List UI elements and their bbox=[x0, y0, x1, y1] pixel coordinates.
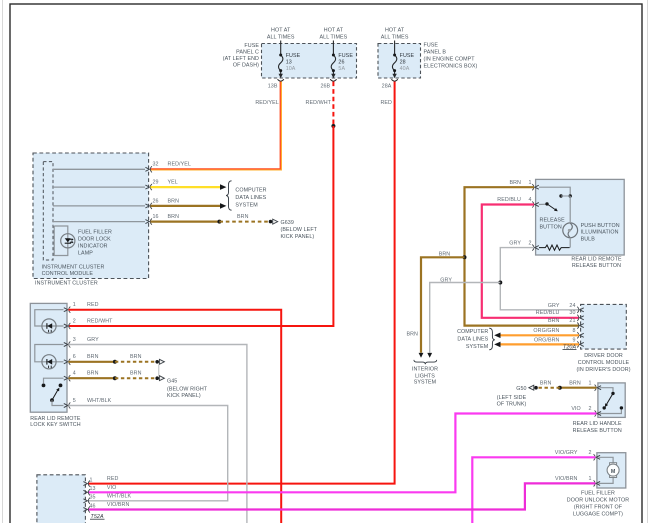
cluster internal wire pin 26 bbox=[53, 205, 145, 207]
svg-text:26: 26 bbox=[338, 60, 344, 66]
svg-text:GRY: GRY bbox=[440, 277, 452, 283]
pin 29 bbox=[145, 184, 152, 190]
svg-text:WHT/BLK: WHT/BLK bbox=[107, 494, 132, 500]
svg-text:(IN ENGINE COMPT: (IN ENGINE COMPT bbox=[424, 57, 476, 63]
svg-text:GRY: GRY bbox=[548, 303, 560, 309]
svg-text:HOT AT: HOT AT bbox=[324, 28, 344, 34]
svg-text:13: 13 bbox=[90, 486, 96, 492]
ground G639 bbox=[269, 219, 278, 224]
svg-text:DOOR UNLOCK MOTOR: DOOR UNLOCK MOTOR bbox=[567, 498, 629, 504]
svg-text:BRN: BRN bbox=[540, 380, 552, 386]
svg-text:FUSE: FUSE bbox=[338, 53, 353, 59]
wire VIO/BRN motor pin 1 to T52A pin 46 bbox=[88, 483, 595, 509]
svg-text:BRN: BRN bbox=[87, 354, 99, 360]
resistor bbox=[539, 245, 570, 250]
svg-text:BRN: BRN bbox=[548, 318, 560, 324]
svg-text:BRN: BRN bbox=[406, 331, 418, 337]
connector 28A bbox=[391, 79, 397, 81]
svg-text:COMPUTER: COMPUTER bbox=[457, 329, 488, 335]
svg-text:HOT AT: HOT AT bbox=[385, 28, 405, 34]
svg-text:VIO/BRN: VIO/BRN bbox=[555, 476, 578, 482]
svg-text:YEL: YEL bbox=[168, 180, 178, 186]
svg-text:RED: RED bbox=[380, 100, 392, 106]
svg-text:16: 16 bbox=[153, 214, 159, 220]
svg-text:28A: 28A bbox=[382, 84, 392, 90]
release button pin 1 bbox=[532, 184, 539, 190]
module pin 9 / wire ORG/BRN bbox=[577, 341, 584, 347]
instrument cluster outer box bbox=[33, 153, 149, 279]
fuse 26 value label bbox=[338, 53, 353, 72]
svg-text:CONTROL MODULE: CONTROL MODULE bbox=[42, 271, 94, 277]
T52A module box bbox=[37, 475, 86, 523]
svg-text:G50: G50 bbox=[516, 386, 526, 392]
svg-text:1: 1 bbox=[528, 180, 531, 186]
rear lid handle release button box bbox=[598, 383, 625, 418]
svg-text:VIO: VIO bbox=[571, 406, 580, 412]
rear lid remote lock key switch box bbox=[30, 303, 67, 412]
fuse 26 bbox=[331, 41, 335, 75]
svg-text:DATA LINES: DATA LINES bbox=[457, 336, 488, 342]
handle button switch bbox=[600, 388, 614, 392]
svg-text:ELECTRONICS BOX): ELECTRONICS BOX) bbox=[424, 64, 478, 70]
svg-text:VIO/BRN: VIO/BRN bbox=[107, 502, 130, 508]
svg-text:4: 4 bbox=[528, 197, 531, 203]
wire RED/WHT to key switch pin 2 bbox=[69, 126, 334, 326]
junction BRN bbox=[463, 255, 467, 259]
svg-text:BUTTON: BUTTON bbox=[540, 224, 562, 230]
svg-text:1: 1 bbox=[73, 302, 76, 308]
svg-text:BRN: BRN bbox=[439, 252, 451, 258]
svg-text:GRY: GRY bbox=[87, 337, 99, 343]
wire VIO/GRY motor pin 2 bbox=[472, 457, 595, 523]
svg-text:FUEL FILLER: FUEL FILLER bbox=[581, 491, 615, 497]
svg-text:26B: 26B bbox=[320, 84, 330, 90]
svg-text:10A: 10A bbox=[286, 66, 296, 72]
svg-text:RED: RED bbox=[87, 302, 99, 308]
key switch pin 1 bbox=[64, 307, 71, 313]
HOT AT ALL TIMES label (fuse 28) bbox=[381, 28, 409, 41]
svg-text:13: 13 bbox=[286, 60, 292, 66]
cluster internal wire pin 16 bbox=[53, 221, 145, 223]
svg-text:BRN: BRN bbox=[509, 180, 521, 186]
svg-text:40A: 40A bbox=[400, 66, 410, 72]
wire GRY branch to interior lights bbox=[430, 283, 501, 353]
svg-text:VIO/GRY: VIO/GRY bbox=[555, 450, 578, 456]
instrument cluster control module box bbox=[43, 162, 53, 260]
cluster internal wire pin 29 bbox=[53, 186, 145, 188]
svg-text:1: 1 bbox=[588, 380, 591, 386]
cluster internal wire pin 32 bbox=[53, 168, 145, 170]
T52A pin 46 bbox=[83, 506, 90, 512]
fuse 13 value label bbox=[286, 53, 301, 72]
svg-text:VIO: VIO bbox=[107, 485, 116, 491]
svg-text:FUSE: FUSE bbox=[400, 53, 415, 59]
svg-text:FUSE: FUSE bbox=[424, 43, 439, 49]
key switch contacts bbox=[44, 378, 64, 383]
svg-text:5A: 5A bbox=[338, 66, 345, 72]
svg-text:OF TRUNK): OF TRUNK) bbox=[497, 402, 527, 408]
svg-text:(BELOW LEFT: (BELOW LEFT bbox=[281, 227, 318, 233]
fuse panel B label bbox=[424, 43, 478, 70]
svg-text:DRIVER DOOR: DRIVER DOOR bbox=[584, 353, 623, 359]
svg-text:LUGGAGE COMPT): LUGGAGE COMPT) bbox=[573, 511, 623, 517]
splice on BRN pin 16 wire bbox=[217, 220, 221, 224]
svg-text:1: 1 bbox=[90, 477, 93, 483]
wire BRN pin 26 to computer data lines bbox=[151, 205, 221, 207]
splice on BRN pin 6 wire bbox=[113, 360, 117, 364]
svg-text:RED/BLU: RED/BLU bbox=[536, 310, 560, 316]
svg-text:RED: RED bbox=[107, 476, 119, 482]
module pin 8 / wire ORG/GRN bbox=[577, 332, 584, 338]
svg-text:(LEFT SIDE: (LEFT SIDE bbox=[497, 395, 527, 401]
svg-text:OF DASH): OF DASH) bbox=[233, 63, 259, 69]
svg-text:BRN: BRN bbox=[130, 371, 142, 377]
pin 26 bbox=[145, 203, 152, 209]
svg-text:RED/YEL: RED/YEL bbox=[255, 100, 278, 106]
svg-text:SYSTEM: SYSTEM bbox=[414, 380, 437, 386]
rear lid remote release button box bbox=[536, 179, 625, 255]
release button switch bbox=[539, 187, 570, 194]
key switch pin 5 bbox=[64, 402, 71, 408]
motor pin 2 bbox=[594, 454, 601, 460]
svg-text:46: 46 bbox=[90, 503, 96, 509]
wire BRN key switch pin 4 bbox=[69, 377, 115, 379]
svg-text:BULB: BULB bbox=[581, 236, 596, 242]
svg-text:ALL TIMES: ALL TIMES bbox=[381, 35, 409, 41]
key switch LED 2 loop bbox=[35, 345, 64, 369]
brace computer data lines (module) bbox=[489, 328, 495, 350]
motor pin 1 bbox=[594, 480, 601, 486]
svg-text:RED/WHT: RED/WHT bbox=[306, 100, 332, 106]
svg-text:ALL TIMES: ALL TIMES bbox=[320, 35, 348, 41]
handle button pin 1 bbox=[595, 385, 602, 391]
brace computer data lines bbox=[226, 181, 232, 210]
junction GRY bbox=[498, 281, 502, 285]
svg-text:26: 26 bbox=[153, 198, 159, 204]
fuse panel C label bbox=[223, 43, 260, 69]
ground G45 bbox=[155, 376, 164, 381]
svg-text:ILLUMINATION: ILLUMINATION bbox=[581, 230, 619, 236]
interior lights arrows bbox=[419, 353, 424, 358]
svg-text:9: 9 bbox=[572, 337, 575, 343]
svg-text:28: 28 bbox=[400, 60, 406, 66]
svg-text:GRY: GRY bbox=[509, 240, 521, 246]
svg-text:BRN: BRN bbox=[569, 380, 581, 386]
svg-text:G639: G639 bbox=[281, 220, 294, 226]
computer data lines system label bbox=[235, 187, 266, 208]
svg-text:ALL TIMES: ALL TIMES bbox=[267, 35, 295, 41]
svg-text:(IN DRIVER'S DOOR): (IN DRIVER'S DOOR) bbox=[576, 367, 630, 373]
svg-text:2: 2 bbox=[588, 450, 591, 456]
fuse panel B box bbox=[378, 44, 421, 79]
wire WHT/BLK key switch pin 5 to T52A pin 35 bbox=[69, 406, 228, 501]
svg-text:21: 21 bbox=[569, 318, 575, 324]
svg-text:SYSTEM: SYSTEM bbox=[235, 202, 258, 208]
svg-text:RED/YEL: RED/YEL bbox=[168, 162, 191, 168]
svg-text:8: 8 bbox=[572, 328, 575, 334]
svg-text:REAR LID REMOTE: REAR LID REMOTE bbox=[30, 416, 81, 422]
key switch LED 1 loop bbox=[35, 310, 64, 333]
fuel filler door unlock motor box bbox=[597, 453, 626, 488]
svg-text:INTERIOR: INTERIOR bbox=[412, 367, 438, 373]
lamp label bbox=[78, 230, 112, 257]
wire BRN handle button pin 1 to G50 bbox=[560, 387, 597, 389]
svg-text:PANEL C: PANEL C bbox=[236, 50, 259, 56]
interior lights system label bbox=[412, 367, 438, 386]
T52A pin 35 bbox=[83, 498, 90, 504]
svg-text:DOOR LOCK: DOOR LOCK bbox=[78, 237, 111, 243]
svg-text:DATA LINES: DATA LINES bbox=[235, 195, 266, 201]
svg-text:LIGHTS: LIGHTS bbox=[415, 373, 435, 379]
svg-text:(BELOW RIGHT: (BELOW RIGHT bbox=[167, 387, 208, 393]
svg-text:INSTRUMENT CLUSTER: INSTRUMENT CLUSTER bbox=[35, 280, 98, 286]
ground tie line bbox=[158, 365, 160, 376]
svg-text:FUSE: FUSE bbox=[244, 43, 259, 49]
ground arrow (pin 6) bbox=[155, 359, 164, 364]
svg-text:PANEL B: PANEL B bbox=[424, 50, 447, 56]
key switch blade bbox=[52, 389, 58, 400]
svg-text:(AT LEFT END: (AT LEFT END bbox=[223, 56, 259, 62]
svg-text:BRN: BRN bbox=[87, 371, 99, 377]
svg-text:INSTRUMENT CLUSTER: INSTRUMENT CLUSTER bbox=[42, 265, 105, 271]
wire BRN pin 16 to G639 bbox=[151, 221, 220, 223]
svg-text:29: 29 bbox=[153, 180, 159, 186]
fuse panel C box bbox=[262, 44, 357, 79]
svg-text:35: 35 bbox=[90, 495, 96, 501]
splice on RED/WHT bbox=[331, 124, 335, 128]
svg-text:30: 30 bbox=[569, 310, 575, 316]
svg-text:24: 24 bbox=[569, 303, 575, 309]
splice on BRN to G50 bbox=[558, 386, 562, 390]
svg-text:6: 6 bbox=[73, 354, 76, 360]
svg-text:(RIGHT FRONT OF: (RIGHT FRONT OF bbox=[574, 505, 623, 511]
wire BRN key switch pin 6 bbox=[69, 361, 115, 363]
driver door control module box bbox=[581, 304, 627, 349]
key switch pin 6 bbox=[64, 359, 71, 365]
motor M bbox=[599, 457, 614, 463]
svg-text:KICK PANEL): KICK PANEL) bbox=[281, 234, 315, 240]
release button label bbox=[540, 217, 566, 230]
connector 26B bbox=[330, 79, 336, 81]
key switch pin 2 bbox=[64, 323, 71, 329]
release button pin 2 bbox=[532, 245, 539, 251]
svg-text:BRN: BRN bbox=[168, 198, 180, 204]
connector 13B bbox=[278, 79, 284, 81]
svg-text:LAMP: LAMP bbox=[78, 251, 93, 257]
release button pin 4 bbox=[532, 201, 539, 207]
splice on BRN pin 4 wire bbox=[113, 376, 117, 380]
svg-text:FUEL FILLER: FUEL FILLER bbox=[78, 230, 112, 236]
svg-text:RELEASE BUTTON: RELEASE BUTTON bbox=[573, 428, 622, 434]
module pin 24 bbox=[577, 307, 584, 313]
key switch pin 3 bbox=[64, 341, 71, 347]
wire RED from fuse 28 to T52A pin 1 bbox=[88, 82, 394, 484]
module pin 21 bbox=[577, 323, 584, 329]
computer data lines system label (module) bbox=[457, 329, 489, 350]
svg-text:BRN: BRN bbox=[168, 214, 180, 220]
bulb label bbox=[581, 223, 620, 243]
svg-text:3: 3 bbox=[73, 337, 76, 343]
wire RED/WHT from fuse 26 (dashed) to splice bbox=[332, 82, 334, 127]
svg-text:SYSTEM: SYSTEM bbox=[466, 344, 489, 350]
wire YEL pin 29 to computer data lines bbox=[151, 186, 221, 188]
svg-text:M: M bbox=[611, 469, 616, 475]
svg-text:CONTROL MODULE: CONTROL MODULE bbox=[578, 360, 630, 366]
svg-text:2: 2 bbox=[588, 406, 591, 412]
wire BRN release button pin 1 to driver door module pin 21 bbox=[465, 187, 580, 325]
wire GRY key switch pin 3 bbox=[69, 345, 247, 523]
wire RED key switch pin 1 bbox=[69, 310, 282, 523]
HOT AT ALL TIMES label (fuse 26) bbox=[320, 28, 348, 41]
svg-text:13B: 13B bbox=[268, 84, 278, 90]
handle button pin 2 bbox=[595, 410, 602, 416]
svg-text:RED/WHT: RED/WHT bbox=[87, 319, 113, 325]
wire BRN branch to interior lights bbox=[421, 257, 465, 353]
svg-text:PUSH BUTTON: PUSH BUTTON bbox=[581, 223, 620, 229]
svg-text:2: 2 bbox=[528, 240, 531, 246]
fuel filler door lock indicator lamp bbox=[54, 226, 75, 256]
svg-text:BRN: BRN bbox=[237, 214, 249, 220]
svg-text:5: 5 bbox=[73, 398, 76, 404]
T52A pin 1 bbox=[83, 481, 90, 487]
HOT AT ALL TIMES label (fuse 13) bbox=[267, 28, 295, 41]
svg-text:ORG/BRN: ORG/BRN bbox=[534, 337, 560, 343]
interior lights brace bbox=[414, 360, 437, 364]
key switch pin 4 bbox=[64, 375, 71, 381]
module pin 30 bbox=[577, 315, 584, 321]
svg-text:COMPUTER: COMPUTER bbox=[235, 187, 266, 193]
svg-text:REAR LID REMOTE: REAR LID REMOTE bbox=[571, 256, 622, 262]
svg-text:1: 1 bbox=[588, 476, 591, 482]
svg-text:FUSE: FUSE bbox=[286, 53, 301, 59]
pin 32 bbox=[145, 166, 152, 172]
svg-text:RED/BLU: RED/BLU bbox=[497, 197, 521, 203]
svg-text:WHT/BLK: WHT/BLK bbox=[87, 398, 112, 404]
svg-text:REAR LID HANDLE: REAR LID HANDLE bbox=[573, 421, 622, 427]
wire RED/BLU release button pin 4 to driver door module pin 30 bbox=[482, 205, 579, 318]
svg-text:RELEASE: RELEASE bbox=[540, 217, 566, 223]
svg-text:BRN: BRN bbox=[130, 354, 142, 360]
svg-text:HOT AT: HOT AT bbox=[271, 28, 291, 34]
wire VIO handle button pin 2 to T52A pin 13 bbox=[88, 414, 596, 493]
svg-text:32: 32 bbox=[153, 162, 159, 168]
fuse 13 bbox=[279, 41, 283, 75]
svg-text:ORG/GRN: ORG/GRN bbox=[533, 328, 559, 334]
svg-text:LOCK KEY SWITCH: LOCK KEY SWITCH bbox=[30, 422, 80, 428]
wire GRY release button pin 2 to driver door module pin 24 bbox=[500, 248, 579, 310]
svg-text:KICK PANEL): KICK PANEL) bbox=[167, 393, 201, 399]
wire RED/YEL from fuse 13 to instrument cluster pin 32 bbox=[151, 82, 281, 170]
svg-text:G45: G45 bbox=[167, 379, 177, 385]
pin 16 bbox=[145, 219, 152, 225]
svg-text:INDICATOR: INDICATOR bbox=[78, 244, 108, 250]
ground G50 bbox=[529, 385, 538, 390]
svg-text:2: 2 bbox=[73, 319, 76, 325]
svg-text:4: 4 bbox=[73, 371, 76, 377]
svg-text:RELEASE BUTTON: RELEASE BUTTON bbox=[572, 263, 621, 269]
fuse 28 bbox=[392, 41, 396, 75]
T52A pin 13 bbox=[83, 489, 90, 495]
fuse 28 value label bbox=[400, 53, 415, 72]
push button illumination bulb bbox=[563, 223, 578, 238]
